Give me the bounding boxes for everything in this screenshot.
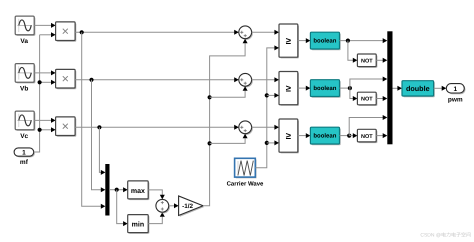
wire mf to product in2 row Vb: [40, 81, 52, 83]
boolean data type conversion block row Va: [310, 32, 340, 50]
svg-text:Vc: Vc: [20, 133, 28, 140]
double data type conversion block: [402, 81, 435, 98]
wire branch to >= Vb in2: [267, 94, 275, 96]
svg-text:NOT: NOT: [361, 134, 373, 140]
wire Va to product block in1: [34, 24, 51, 26]
junction node row Vc tap: [97, 125, 101, 129]
sum block (add offset) row Vb: [239, 73, 253, 87]
svg-text:≥: ≥: [286, 36, 291, 47]
wire NOT3 out to mux: [376, 135, 383, 137]
sum block (max+min): [156, 199, 170, 213]
svg-text:Vb: Vb: [20, 86, 28, 93]
wire mf up-trunk to product blocks: [34, 35, 40, 152]
svg-text:Va: Va: [20, 38, 28, 45]
junction node mf to product Vb: [38, 80, 42, 84]
svg-text:boolean: boolean: [313, 38, 336, 45]
junction node carrier to >= Vc: [265, 141, 269, 145]
wire split down to NOT2: [350, 88, 353, 98]
wire split up to mux in5: [349, 118, 383, 136]
junction node boolean Va NOT tap: [346, 39, 350, 43]
svg-text:mf: mf: [20, 159, 29, 166]
svg-text:max: max: [131, 188, 145, 195]
NOT block 3: [357, 129, 377, 143]
wire NOT2 out to mux: [376, 98, 383, 100]
junction node gain trunk to sum Vc: [208, 141, 212, 145]
wire mux2 out to double: [393, 87, 398, 89]
wire branch to >= Vc in2: [267, 142, 275, 144]
wire tap down to bottom mux, row Vb: [92, 80, 102, 190]
product block (x) row Vb: [56, 69, 77, 89]
wire tap down to NOT1: [348, 41, 353, 61]
svg-text:min: min: [132, 221, 144, 229]
junction node boolean Vc split: [347, 134, 351, 138]
product block (x) row Vc: [56, 117, 77, 137]
svg-text:1: 1: [453, 86, 457, 93]
junction node row Vb tap: [89, 78, 93, 82]
junction node boolean Vb split: [348, 86, 352, 90]
svg-text:≥: ≥: [286, 83, 291, 94]
wire gain out trunk up to sum blocks: [203, 43, 245, 206]
wire Vb to product block in1: [34, 72, 51, 74]
wire product out to sum, row Vc: [75, 126, 235, 128]
sum block (add offset) row Vc: [239, 121, 253, 135]
gain -1/2 triangle: [179, 196, 205, 217]
sine wave source Vc: [15, 111, 35, 131]
wire tap down to bottom mux, row Vc: [99, 127, 101, 172]
outport 1 pwm: [446, 84, 465, 95]
junction node row Va tap: [80, 30, 84, 34]
boolean data type conversion block row Vb: [310, 80, 340, 98]
junction node max/min split: [115, 188, 119, 192]
svg-text:boolean: boolean: [313, 85, 336, 92]
svg-text:Carrier Wave: Carrier Wave: [227, 180, 264, 187]
mux (3-in) bottom left: [105, 164, 109, 216]
wire branch to sum Vc bottom: [210, 138, 246, 143]
wire split up to mux in3: [350, 79, 384, 88]
sine wave source Vb: [15, 64, 35, 84]
svg-text:-1/2: -1/2: [182, 203, 193, 210]
wire boolean Va out to mux: [340, 40, 384, 42]
wire product out to sum, row Vb: [75, 79, 235, 81]
relational operator >= row Vb: [279, 72, 299, 106]
svg-text:boolean: boolean: [313, 133, 336, 140]
NOT block 1: [357, 54, 377, 68]
min block: [128, 215, 150, 234]
svg-text:≥: ≥: [286, 131, 291, 142]
mux (6-in) right: [387, 31, 392, 144]
svg-text:1: 1: [22, 150, 26, 157]
wire mux out to max/min junction: [109, 189, 123, 191]
svg-text:CSDN @电力电子空间: CSDN @电力电子空间: [420, 232, 471, 239]
wire NOT1 out to mux: [376, 59, 383, 61]
svg-text:NOT: NOT: [361, 97, 373, 103]
sum block (add offset) row Va: [239, 26, 253, 40]
boolean data type conversion block row Vc: [310, 127, 340, 145]
wire relational out to boolean, row Vc: [298, 135, 306, 137]
svg-text:double: double: [406, 84, 430, 93]
wire relational out to boolean, row Va: [298, 40, 306, 42]
wire double out to outport: [434, 87, 442, 89]
wire boolean Vc out: [340, 135, 350, 137]
wire split down to min: [117, 190, 123, 224]
sine wave source Va: [15, 16, 35, 36]
svg-text:pwm: pwm: [448, 96, 463, 103]
wire sum out to relational operator, row Vc: [252, 126, 275, 128]
inport 1 mf: [14, 148, 35, 158]
wire min out to sum4 bottom: [148, 217, 162, 224]
product block (x) row Va: [56, 22, 77, 42]
wire Vc to product block in1: [34, 119, 51, 121]
wire branch to sum Vb bottom: [210, 91, 246, 98]
carrier wave source block: [235, 158, 257, 178]
relational operator >= row Vc: [279, 119, 299, 153]
wire sum out to relational operator, row Va: [252, 31, 275, 33]
wire mf to product in2 row Vc: [40, 129, 52, 131]
NOT block 2: [357, 92, 377, 106]
svg-text:NOT: NOT: [361, 59, 373, 65]
wire product out to sum, row Va: [75, 31, 235, 33]
wire sum4 out to gain: [169, 205, 175, 207]
max block: [128, 181, 150, 200]
relational operator >= row Va: [279, 24, 299, 58]
junction node mf to product Vc: [38, 128, 42, 132]
wire mf to product in2 row Va: [40, 34, 52, 36]
junction node gain trunk to sum Vb: [208, 95, 212, 99]
junction node carrier to >= Vb: [265, 93, 269, 97]
wire boolean Vb out: [340, 87, 350, 89]
wire max out to sum4 top: [148, 190, 162, 195]
wire sum out to relational operator, row Vb: [252, 79, 275, 81]
wire carrier out trunk up to relational operators: [255, 48, 274, 168]
wire relational out to boolean, row Vb: [298, 87, 306, 89]
wire tap down to bottom mux, row Va: [82, 32, 102, 206]
wire straight to NOT3: [349, 135, 353, 137]
